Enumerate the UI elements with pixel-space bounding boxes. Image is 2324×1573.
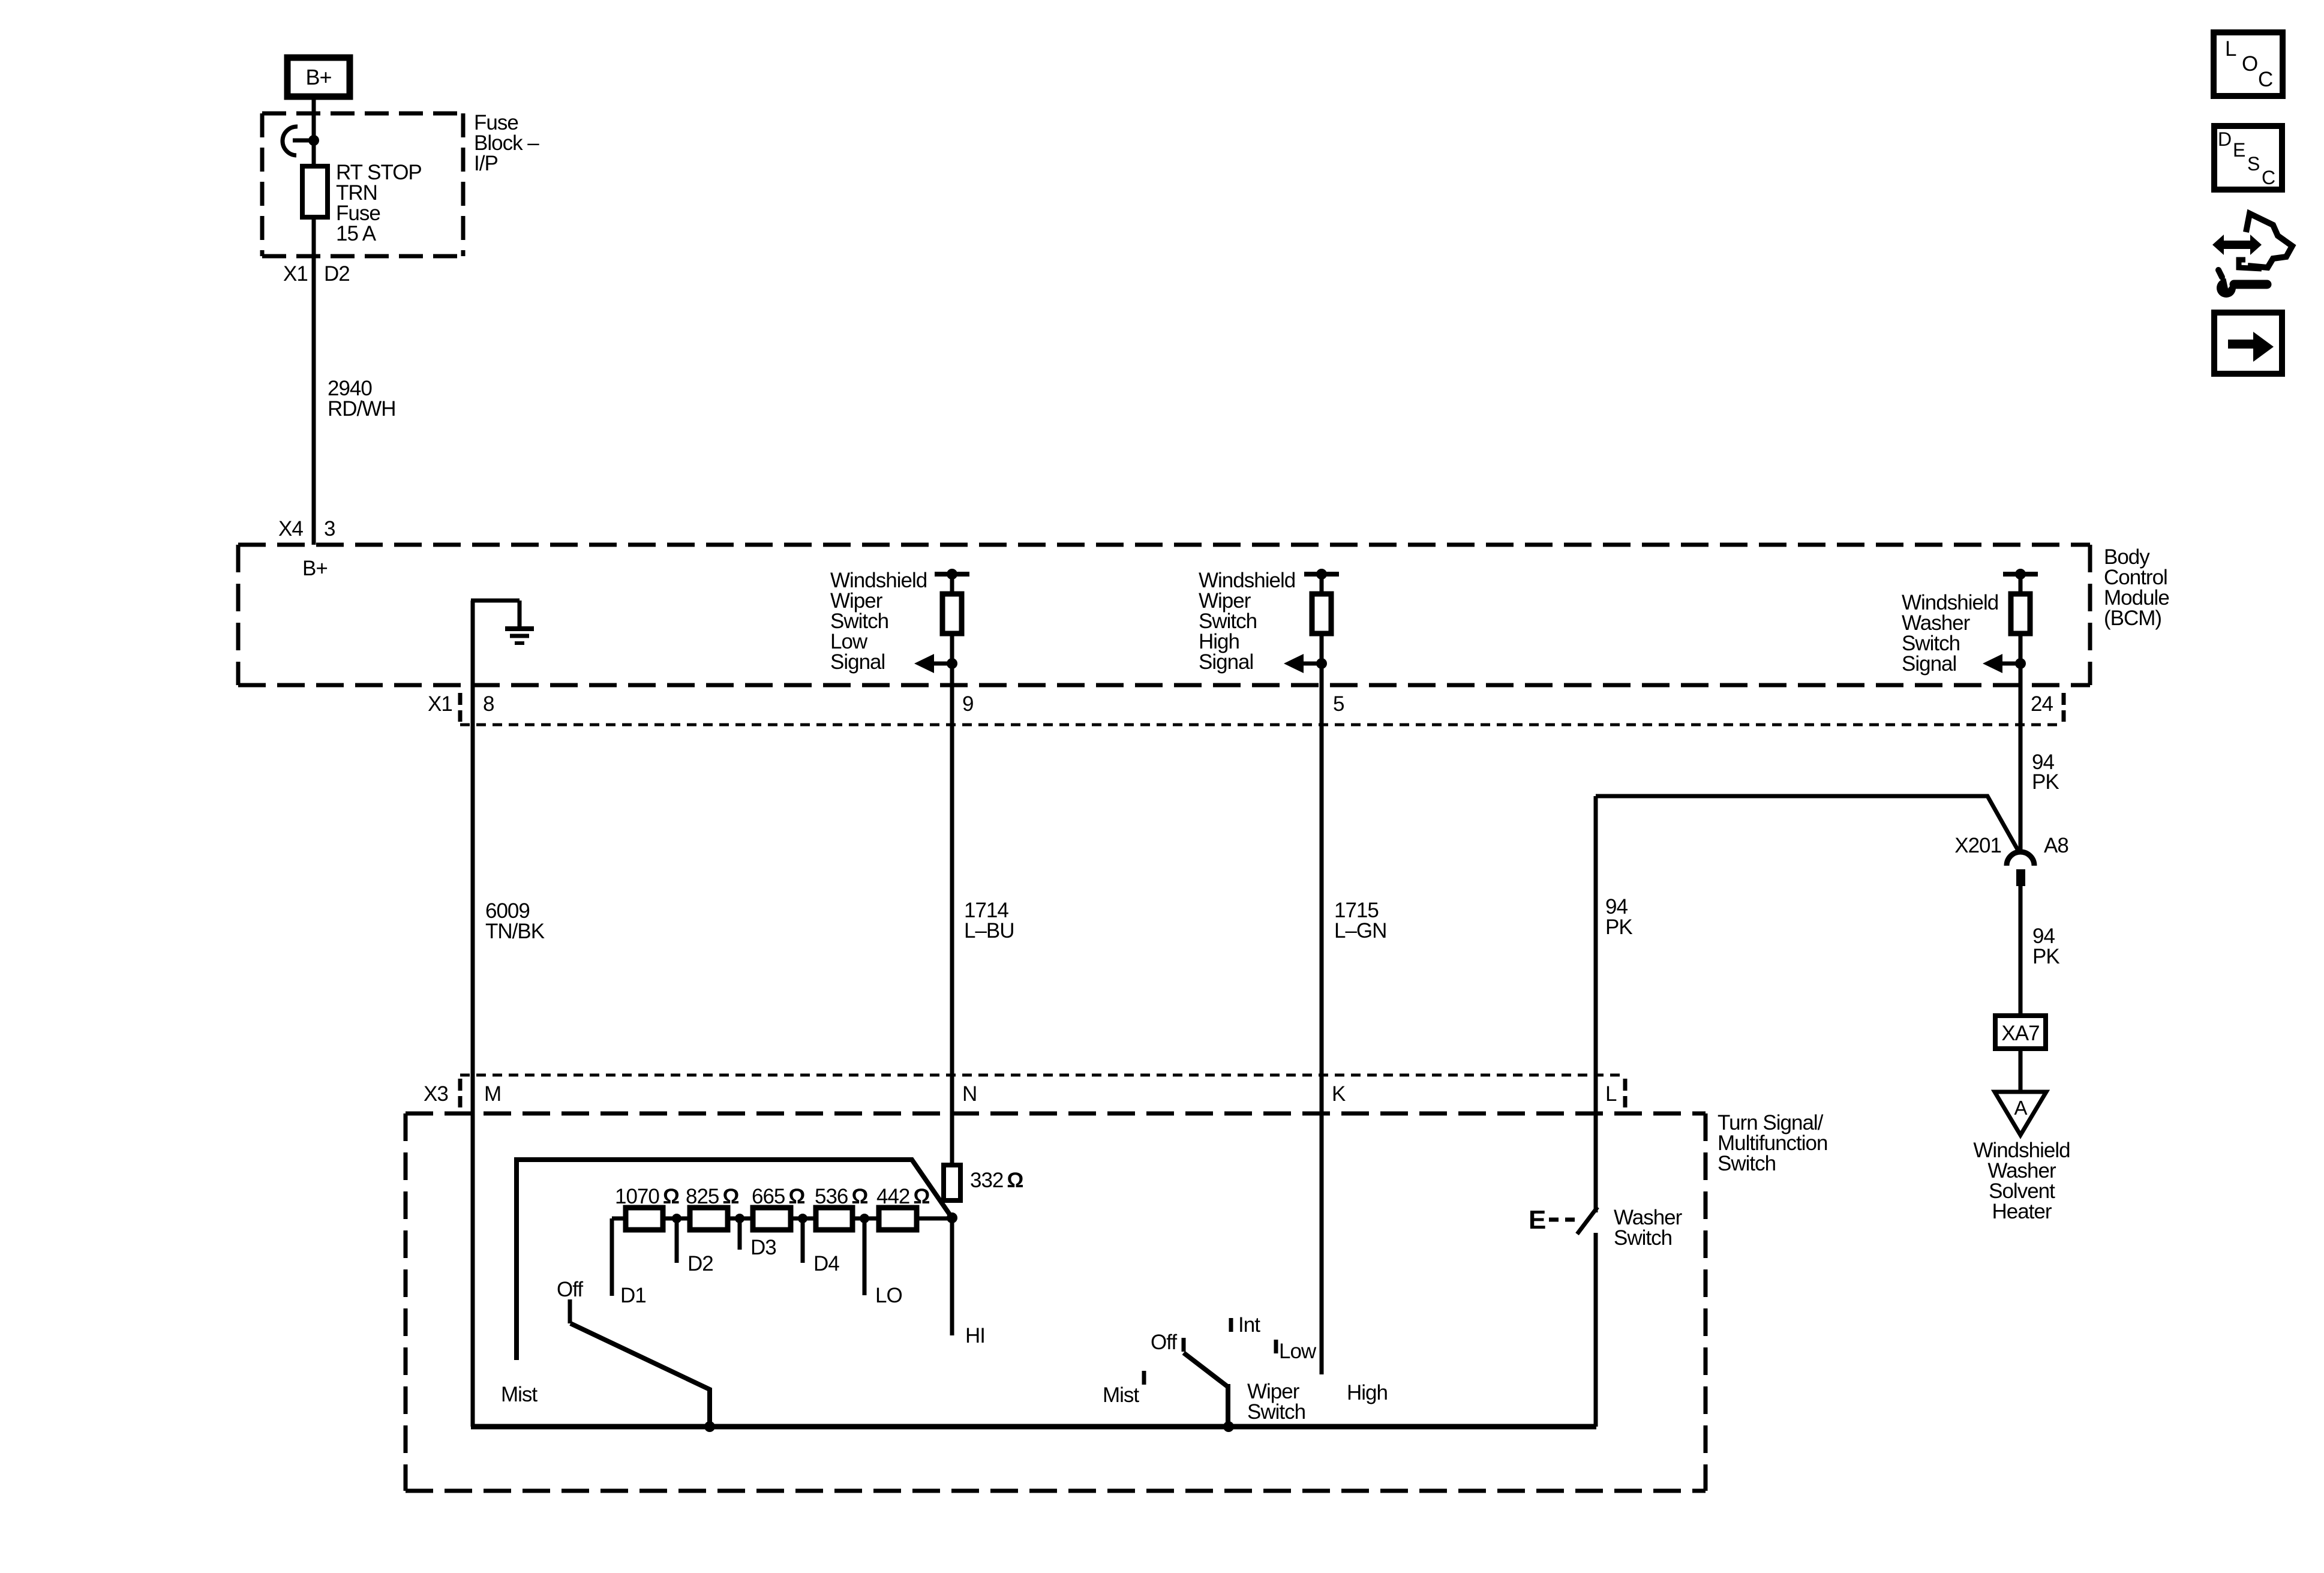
svg-text:Signal: Signal (830, 650, 885, 674)
wire windshield washer switch signal pin 24 (2019, 574, 2023, 854)
svg-text:Off: Off (557, 1278, 583, 1301)
icon car with double arrow and wrench (2212, 214, 2292, 298)
turn signal / multifunction switch dashed box (406, 1113, 1706, 1491)
icon DESC (2214, 126, 2282, 190)
connector XA7 (1995, 1016, 2046, 1049)
svg-text:O: O (2242, 52, 2257, 76)
svg-text:1070 Ω: 1070 Ω (615, 1185, 679, 1208)
svg-text:665 Ω: 665 Ω (752, 1185, 804, 1208)
node pin 5 top (1316, 569, 1327, 580)
node D4 tap (798, 1214, 807, 1223)
int contact tick (1229, 1318, 1233, 1332)
svg-text:X3: X3 (424, 1082, 448, 1106)
resistor 665 ohm (753, 1208, 791, 1230)
resistor 536 ohm (816, 1208, 852, 1230)
svg-text:9: 9 (962, 692, 973, 716)
wire HI contact (950, 1218, 954, 1335)
wire ground pin 8 / pin M (471, 601, 475, 1427)
resistor BCM washer signal pull-up (2011, 594, 2030, 634)
svg-text:Int: Int (1238, 1313, 1260, 1337)
labels D1 D2 D3 D4 LO HI (620, 1236, 985, 1347)
svg-text:5: 5 (1333, 692, 1344, 716)
label Body Control Module (BCM) (2104, 545, 2169, 630)
svg-text:L: L (1605, 1082, 1617, 1106)
BCM internal bar pin 5 (1304, 572, 1339, 577)
off contact tick left switch (568, 1299, 572, 1323)
BCM internal bar pin 9 (935, 572, 969, 577)
wire label 2940 RD/WH (328, 377, 396, 421)
node arm left on common (704, 1421, 715, 1432)
svg-text:Switch: Switch (1718, 1152, 1776, 1175)
svg-text:Low: Low (1279, 1340, 1317, 1363)
svg-text:D4: D4 (813, 1252, 839, 1275)
wire label 94 PK right upper (2032, 751, 2059, 794)
svg-text:15 A: 15 A (336, 222, 377, 245)
svg-text:PK: PK (2032, 770, 2059, 794)
svg-text:C: C (2262, 167, 2275, 188)
battery terminal B+ (287, 58, 350, 97)
svg-text:B+: B+ (302, 557, 328, 580)
svg-text:PK: PK (2032, 945, 2059, 968)
fuse clip symbol (283, 127, 319, 155)
svg-text:High: High (1347, 1381, 1388, 1404)
svg-text:Heater: Heater (1992, 1200, 2052, 1223)
svg-text:D3: D3 (750, 1236, 776, 1259)
svg-text:D: D (2218, 128, 2231, 150)
label Windshield Washer Switch Signal (1902, 591, 1998, 676)
svg-text:M: M (484, 1082, 501, 1106)
wire D3 stub (738, 1218, 742, 1250)
wire D4 stub (801, 1218, 805, 1263)
svg-text:Switch: Switch (1247, 1400, 1305, 1424)
svg-text:I/P: I/P (474, 152, 498, 175)
svg-text:D2: D2 (324, 262, 350, 286)
svg-text:Switch: Switch (1614, 1226, 1672, 1250)
node pin 5 signal (1316, 658, 1327, 669)
label Wiper Switch (1247, 1380, 1305, 1424)
wire label 1714 L-BU (964, 899, 1014, 942)
svg-text:HI: HI (965, 1324, 985, 1347)
connector X3 row (460, 1075, 1625, 1107)
resistor 1070 ohm (626, 1208, 663, 1230)
wire windshield wiper switch low signal pin 9 (950, 574, 954, 1165)
wire D1 contact (610, 1218, 614, 1296)
connector label X1 D2 (283, 262, 350, 286)
svg-text:A: A (2014, 1097, 2027, 1119)
wire label 1715 L-GN (1334, 899, 1386, 942)
svg-text:Mist: Mist (1103, 1383, 1139, 1407)
svg-text:TN/BK: TN/BK (485, 920, 545, 943)
wire label 94 PK left (1605, 895, 1632, 939)
label Windshield Washer Solvent Heater (1973, 1139, 2070, 1223)
inline connector X201 pin A8 (2007, 852, 2034, 886)
svg-text:(BCM): (BCM) (2104, 607, 2161, 630)
svg-text:X1: X1 (283, 262, 308, 286)
svg-text:X201: X201 (1954, 834, 2001, 857)
washer switch arm (1577, 1207, 1598, 1234)
node pin 24 signal (2015, 658, 2026, 669)
wire washer switch lower (1594, 1233, 1598, 1427)
svg-text:536 Ω: 536 Ω (815, 1185, 867, 1208)
arrow high signal (1284, 654, 1322, 673)
svg-text:L–GN: L–GN (1334, 919, 1386, 942)
label X201 A8 (1954, 834, 2068, 857)
wire windshield wiper switch high signal pin 5 (1320, 574, 1324, 1374)
svg-text:X1: X1 (428, 692, 452, 716)
node pin 9 top (947, 569, 957, 580)
svg-text:8: 8 (483, 692, 494, 716)
svg-text:B+: B+ (305, 65, 331, 89)
node pin 24 top (2015, 569, 2026, 580)
label Fuse Block - I/P (474, 111, 539, 175)
wire B+ feed 2940 (312, 96, 316, 545)
wire D2 stub (675, 1218, 679, 1263)
wire label 6009 TN/BK (485, 899, 545, 943)
node pin 9 signal (947, 658, 957, 669)
wire XA7 to heater (2019, 1051, 2023, 1093)
BCM dashed box (238, 545, 2090, 685)
resistor BCM high signal pull-up (1312, 594, 1331, 634)
BCM internal bar pin 24 (2003, 572, 2038, 577)
svg-text:L: L (2225, 37, 2236, 61)
svg-text:3: 3 (324, 517, 335, 541)
wire resistor chain (612, 1217, 952, 1221)
label Washer Switch (1614, 1206, 1683, 1250)
mist contact tick right switch (1142, 1371, 1146, 1385)
wire washer switch pin L upper (1594, 796, 1598, 1212)
wire common bottom (471, 1424, 1596, 1430)
connector X1 row (460, 693, 2064, 725)
svg-text:24: 24 (2031, 692, 2053, 716)
icon LOC (2214, 32, 2283, 96)
wiper switch arm right (1184, 1353, 1228, 1427)
ground symbol (471, 601, 534, 643)
svg-text:XA7: XA7 (2001, 1022, 2039, 1045)
arrow washer signal (1983, 654, 2020, 673)
svg-text:A8: A8 (2044, 834, 2068, 857)
low contact tick (1274, 1340, 1278, 1353)
svg-text:825 Ω: 825 Ω (686, 1185, 738, 1208)
svg-text:X4: X4 (278, 517, 303, 541)
svg-text:PK: PK (1605, 915, 1632, 939)
connector label X4 3 (278, 517, 335, 541)
arrow low signal (914, 654, 952, 673)
wire 94 PK to XA7 (2019, 884, 2023, 1013)
label Windshield Wiper Switch High Signal (1199, 569, 1295, 674)
labels X1 8 9 5 24 (428, 692, 2053, 716)
wire label 94 PK right lower (2032, 924, 2059, 968)
wire 94 PK to X201 (1596, 796, 2019, 852)
label Turn Signal / Multifunction Switch (1718, 1111, 1827, 1175)
svg-text:C: C (2258, 68, 2272, 91)
label Windshield Wiper Switch Low Signal (830, 569, 927, 674)
resistor 332 ohm (944, 1165, 960, 1200)
svg-text:Signal: Signal (1199, 650, 1253, 674)
fuse block I/P dashed box (262, 113, 463, 256)
svg-text:LO: LO (875, 1284, 902, 1307)
svg-text:RD/WH: RD/WH (328, 397, 396, 421)
svg-text:E: E (2233, 139, 2245, 161)
svg-text:K: K (1332, 1082, 1346, 1106)
svg-text:N: N (962, 1082, 977, 1106)
resistor 825 ohm (690, 1208, 728, 1230)
svg-text:S: S (2247, 153, 2259, 175)
svg-text:E: E (1529, 1205, 1545, 1235)
wire mist rail (517, 1160, 952, 1360)
icon arrow (2214, 313, 2282, 374)
resistor BCM low signal pull-up (942, 594, 962, 634)
windshield washer solvent heater terminal A (1995, 1092, 2046, 1135)
node D3 tap (735, 1214, 744, 1223)
svg-text:D2: D2 (687, 1252, 713, 1275)
svg-text:L–BU: L–BU (964, 919, 1014, 942)
svg-text:Off: Off (1151, 1331, 1177, 1354)
wire LO stub (863, 1218, 867, 1295)
node arm right on common (1223, 1421, 1234, 1432)
node HI junction (947, 1212, 957, 1223)
svg-text:Signal: Signal (1902, 652, 1956, 676)
wiper switch arm left (571, 1323, 710, 1427)
svg-text:D1: D1 (620, 1284, 646, 1307)
node LO tap (860, 1214, 869, 1223)
resistor 442 ohm (879, 1208, 917, 1230)
labels X3 M N K L (424, 1082, 1617, 1106)
svg-text:442 Ω: 442 Ω (876, 1185, 929, 1208)
node D2 tap (672, 1214, 681, 1223)
svg-text:332 Ω: 332 Ω (970, 1169, 1023, 1192)
svg-text:Mist: Mist (501, 1383, 538, 1406)
washer switch gate E (1529, 1205, 1579, 1235)
fuse RT STOP TRN 15A (302, 161, 422, 245)
off contact tick right switch (1182, 1338, 1186, 1352)
